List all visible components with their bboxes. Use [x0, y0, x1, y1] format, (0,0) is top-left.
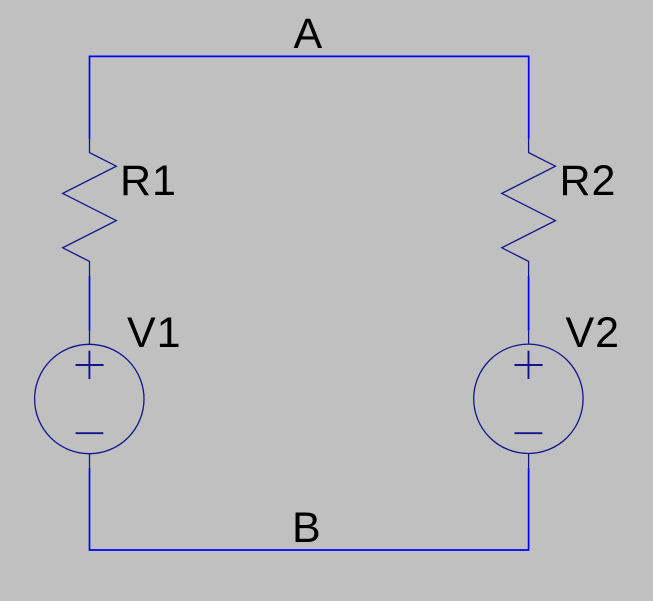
resistor R2 [502, 139, 556, 276]
wire net A top horizontal [90, 55, 529, 57]
wire left vertical from node A to R1 [89, 56, 91, 139]
wire V1 to node B [89, 468, 91, 551]
wire R1 to V1 [89, 276, 91, 331]
svg-text:R2: R2 [560, 157, 617, 205]
resistor R1 [63, 139, 117, 276]
voltage source V1 [35, 331, 144, 468]
voltage source V2 [474, 331, 583, 468]
svg-text:V2: V2 [566, 309, 621, 357]
wire R2 to V2 [528, 276, 530, 331]
svg-text:V1: V1 [127, 309, 182, 357]
wire right vertical from node A to R2 [528, 56, 530, 139]
svg-text:A: A [294, 10, 323, 58]
wire V2 to node B [528, 468, 530, 551]
svg-text:B: B [292, 504, 321, 552]
wire net B bottom horizontal [90, 549, 529, 551]
svg-text:R1: R1 [120, 157, 177, 205]
